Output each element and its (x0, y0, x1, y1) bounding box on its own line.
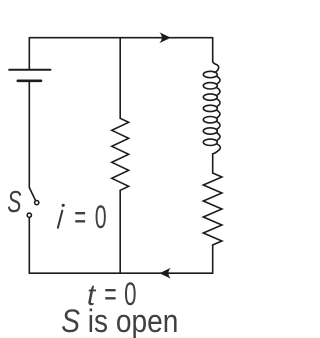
inductor L1 top hook (213, 61, 219, 72)
inductor L1 link 4-5 (217, 110, 220, 118)
inductor L1 link 6-7 (217, 133, 220, 141)
wire left bottom (switch to bottom wire) (28, 217, 30, 273)
inductor L1 link 1-2 (217, 76, 220, 84)
label t = 0 (87, 276, 137, 312)
current arrow bottom (pointing left) (159, 268, 170, 279)
switch S lever (29, 188, 35, 201)
inductor L1 turn 5 (203, 117, 217, 123)
inductor L1 bottom hook (213, 144, 221, 154)
svg-text:0: 0 (95, 199, 107, 235)
switch S lower contact (27, 213, 31, 217)
battery B1 short plate (18, 80, 41, 83)
inductor L1 link 5-6 (217, 121, 220, 129)
inductor L1 turn 4 (203, 105, 217, 111)
wire left mid (battery to switch) (28, 82, 30, 187)
svg-text:S: S (7, 185, 22, 219)
inductor L1 turn 6 (203, 128, 217, 134)
wire right top (212, 38, 214, 62)
svg-text:S is open: S is open (61, 303, 178, 338)
inductor L1 turn 7 (203, 139, 217, 145)
current arrow top (pointing right) (159, 32, 170, 43)
wire middle bottom (119, 190, 121, 273)
svg-text:=: = (74, 199, 86, 235)
inductor L1 link 2-3 (217, 88, 220, 96)
wire top (29, 37, 212, 39)
wire right bottom (212, 245, 214, 273)
wire middle top (119, 38, 121, 119)
label i = 0 (58, 199, 107, 235)
resistor R1 (middle branch) (112, 118, 129, 190)
wire right mid (inductor to resistor) (212, 154, 214, 173)
inductor L1 turn 3 (203, 94, 217, 100)
battery B1 long plate (9, 69, 50, 71)
inductor L1 turn 1 (203, 71, 217, 77)
switch S upper contact (35, 201, 39, 205)
inductor L1 link 3-4 (217, 99, 220, 107)
wire left top (battery to top wire) (28, 38, 30, 69)
inductor L1 turn 2 (203, 83, 217, 89)
wire bottom (29, 272, 212, 274)
resistor R2 (right branch) (203, 173, 222, 245)
